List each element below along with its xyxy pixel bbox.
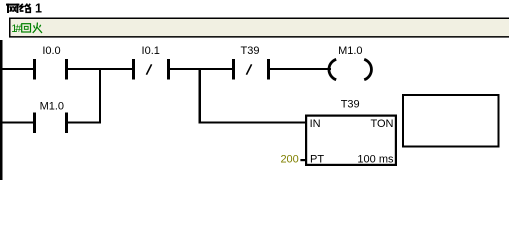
svg-text:TON: TON [370,118,393,130]
svg-text:PT: PT [310,153,324,165]
wire T39 to coil [270,68,331,70]
svg-text:I0.0: I0.0 [42,45,60,57]
network comment text 1#回火 [11,23,42,35]
network title 网络 1 [7,2,42,16]
NC slash of I0.1 [146,64,151,74]
empty operand box [403,95,499,147]
svg-text:M1.0: M1.0 [40,101,64,113]
svg-text:T39: T39 [341,99,360,111]
NC slash of T39 [246,64,251,74]
contact I0.1 (NC) [132,59,135,80]
branch junction down to timer row [199,68,201,124]
contact M1.0 [33,112,36,133]
PT parameter stub wire [300,159,306,161]
svg-text:200: 200 [280,154,298,166]
svg-text:M1.0: M1.0 [338,45,362,57]
svg-text:IN: IN [310,118,321,130]
left power rail [0,40,3,180]
svg-text:I0.1: I0.1 [142,45,160,57]
wire I0.1 to T39 [170,68,233,70]
wire M1.0 contact to junction [68,121,101,123]
timer box T39 TON [306,116,396,166]
svg-text:T39: T39 [241,45,260,57]
wire rail to I0.0 [2,68,34,70]
branch junction down to M1.0 row [99,68,101,124]
wire I0.0 to I0.1 [68,68,133,70]
wire junction to timer IN [200,121,307,123]
svg-text:1: 1 [35,2,42,16]
coil M1.0 [329,59,336,79]
network comment box [10,18,509,37]
svg-text:100 ms: 100 ms [357,153,394,165]
contact T39 (NC) [232,59,235,80]
wire rail to M1.0 contact [2,121,34,123]
contact I0.0 [33,59,36,80]
